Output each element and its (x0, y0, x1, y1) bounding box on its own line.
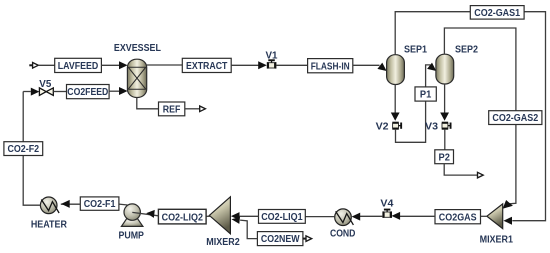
svg-text:V2: V2 (376, 122, 389, 133)
mixer MIXER2 (209, 197, 230, 234)
arrow into EXVESSEL bottom inlet (119, 87, 128, 95)
stream label CO2-GAS2 (489, 111, 542, 125)
arrow into HEATER (61, 200, 70, 208)
arrow into MIXER1 lower inlet (503, 217, 512, 225)
mixer MIXER1 (487, 204, 503, 229)
product marker P2 outlet (478, 172, 484, 178)
svg-text:CO2-GAS2: CO2-GAS2 (492, 113, 538, 124)
svg-text:CO2-LIQ1: CO2-LIQ1 (261, 212, 303, 223)
feed marker LAVFEED inlet (29, 63, 38, 69)
svg-text:REF: REF (163, 105, 181, 116)
svg-text:CO2-GAS1: CO2-GAS1 (474, 8, 520, 19)
svg-text:COND: COND (330, 228, 356, 239)
svg-text:V3: V3 (425, 122, 438, 133)
svg-text:P2: P2 (439, 152, 451, 163)
stream label CO2-LIQ1 (259, 210, 306, 224)
vessel SEP2 (436, 54, 454, 84)
stream label CO2-GAS1 (470, 6, 524, 20)
wire SEP1 top to CO2-GAS1 and right edge (395, 12, 545, 221)
wire P2 to product marker (444, 164, 477, 175)
wire V5 to CO2FEED label (53, 91, 66, 93)
svg-text:CO2-LIQ2: CO2-LIQ2 (162, 212, 204, 223)
wire CO2FEED to column (109, 90, 119, 92)
wire REF to product marker (185, 108, 200, 110)
heater HEATER (40, 197, 59, 214)
svg-text:CO2NEW: CO2NEW (261, 234, 300, 245)
stream label CO2-F2 (4, 142, 43, 156)
valve V5 (39, 88, 53, 96)
stream label CO2-F1 (80, 197, 119, 210)
wire COND to CO2-LIQ1 label (305, 216, 334, 218)
arrow into PUMP (146, 210, 155, 218)
wire LAVFEED label to column (101, 64, 119, 66)
pump PUMP base (121, 218, 142, 226)
wire V2 to SEP2 inlet via P1 (396, 65, 431, 142)
svg-text:CO2GAS: CO2GAS (439, 212, 477, 223)
condenser COND (335, 209, 354, 226)
svg-text:MIXER2: MIXER2 (206, 237, 240, 248)
product marker REF outlet (200, 106, 206, 112)
svg-text:P1: P1 (420, 90, 432, 101)
svg-text:V1: V1 (266, 50, 278, 61)
svg-text:FLASH-IN: FLASH-IN (311, 61, 350, 72)
wire V1 to FLASH-IN label (276, 64, 307, 66)
svg-text:EXVESSEL: EXVESSEL (114, 43, 161, 54)
arrow into SEP1 inlet (377, 63, 386, 71)
wire CO2-LIQ1 to MIXER2 (239, 215, 258, 217)
valve V1 (267, 59, 277, 68)
column EXVESSEL (127, 59, 146, 97)
wire V4 to COND (360, 215, 383, 217)
pump PUMP body (124, 204, 140, 220)
wire MIXER2 to CO2-LIQ2 label (206, 215, 210, 217)
wire FLASH-IN to SEP1 (353, 64, 380, 66)
stream label CO2NEW (257, 232, 303, 246)
stream label FLASH-IN (308, 59, 353, 73)
stream label CO2GAS (435, 210, 481, 224)
wire EXTRACT to valve V1 (231, 64, 258, 66)
arrow into COND (352, 213, 361, 221)
stream label LAVFEED (55, 58, 102, 72)
arrow into MIXER2 upper inlet (231, 212, 240, 220)
wire LAVFEED to label (38, 64, 55, 66)
feed marker CO2NEW inlet (303, 236, 312, 242)
stream label REF (159, 102, 185, 116)
stream label P1 (415, 87, 436, 101)
wire column to EXTRACT label (147, 64, 183, 66)
svg-text:LAVFEED: LAVFEED (58, 61, 99, 72)
wire SEP2 top to CO2-GAS2 and MIXER1 (444, 28, 516, 204)
arrow into valve V3 (440, 113, 449, 121)
valve V2 (392, 122, 402, 130)
stream label EXTRACT (182, 58, 231, 72)
wire HEATER to corner and up through CO2-F2 to V5 (23, 92, 40, 206)
wire SEP2 bottom to valve V3 (444, 84, 446, 113)
arrow after valve V4 (392, 212, 401, 220)
svg-text:SEP1: SEP1 (404, 45, 427, 56)
wire CO2GAS to valve V4 (400, 215, 435, 217)
wire PUMP to CO2-F1 label (119, 203, 128, 206)
wire CO2-LIQ2 to PUMP (sloped) (132, 212, 158, 215)
svg-text:CO2-F2: CO2-F2 (7, 144, 39, 155)
arrow into EXVESSEL top inlet (119, 61, 128, 69)
svg-text:MIXER1: MIXER1 (480, 235, 514, 246)
svg-text:V4: V4 (380, 199, 393, 210)
svg-text:PUMP: PUMP (118, 230, 144, 241)
stream label CO2FEED (67, 85, 110, 99)
stream label CO2-LIQ2 (158, 209, 206, 224)
wire MIXER1 to CO2GAS label (481, 215, 487, 217)
arrow into MIXER1 upper inlet (503, 200, 513, 209)
valve V4 (382, 209, 392, 218)
wire CO2-F1 to HEATER (61, 203, 81, 205)
wire CO2NEW to MIXER2 lower inlet (240, 220, 257, 239)
svg-text:V5: V5 (39, 79, 51, 90)
svg-text:CO2-F1: CO2-F1 (84, 199, 116, 210)
wire SEP1 bottom to valve V2 (394, 85, 396, 114)
valve V5 wire from corner (23, 91, 31, 93)
arrow into SEP2 inlet (427, 63, 436, 71)
arrow before valve V5 (31, 88, 40, 96)
svg-text:SEP2: SEP2 (455, 45, 478, 56)
vessel SEP1 (387, 55, 405, 85)
svg-text:EXTRACT: EXTRACT (186, 61, 227, 72)
valve V3 (442, 122, 452, 130)
arrow into valve V2 (391, 113, 400, 121)
wire column bottom to REF label (137, 98, 159, 109)
wire V3 to P2 (444, 130, 446, 150)
stream label P2 (435, 150, 454, 164)
svg-text:HEATER: HEATER (31, 220, 68, 231)
svg-text:CO2FEED: CO2FEED (67, 87, 108, 98)
arrow before valve V1 (258, 61, 267, 69)
arrow into MIXER2 lower inlet (angled) (232, 217, 241, 224)
